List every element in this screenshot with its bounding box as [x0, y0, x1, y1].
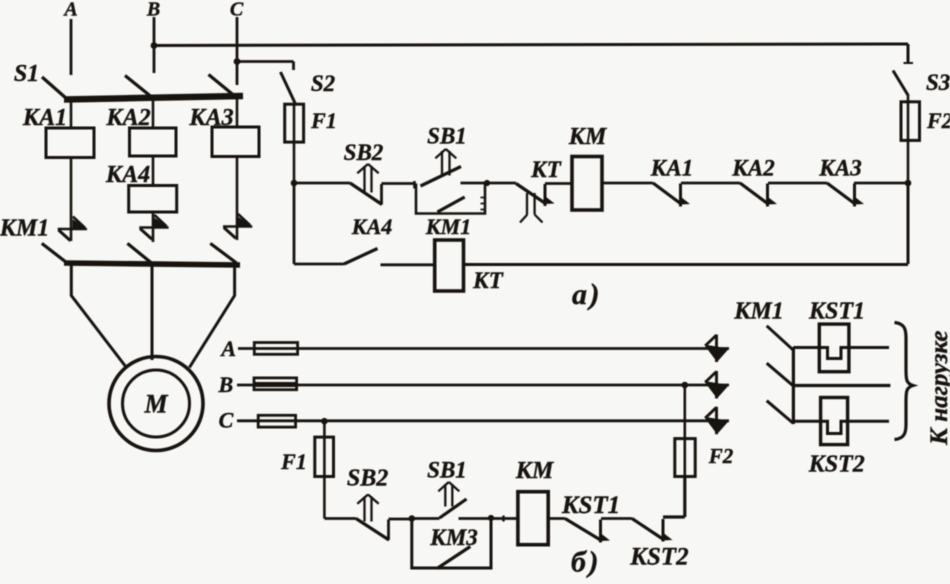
svg-text:б): б): [571, 546, 601, 579]
KM1 holding branch teeth: [481, 198, 486, 210]
pushbutton SB1 actuator: [435, 149, 456, 176]
contact KA2 blade: [740, 183, 777, 207]
svg-text:F1: F1: [310, 108, 337, 133]
pushbutton SB2 right terminal: [380, 184, 383, 205]
junction dot rung b: [409, 515, 416, 522]
wire KM3 holding branch: [412, 519, 491, 569]
junction dot on C: [234, 58, 241, 65]
KM1 linkage bar: [64, 263, 240, 265]
contact KT blade: [516, 184, 546, 204]
KM1 blade B: [127, 243, 151, 263]
svg-text:S1: S1: [14, 61, 39, 87]
svg-text:F2: F2: [926, 108, 950, 133]
junction dot rung b right of branch: [488, 515, 494, 521]
svg-text:КМ1: КМ1: [0, 216, 49, 242]
switch S1 blade C: [209, 75, 237, 98]
switch S2 blade: [281, 72, 296, 103]
wire through fuse F1 circuit b: [323, 421, 326, 518]
wire KST2 to F2: [663, 477, 685, 518]
wire A below KA1: [70, 158, 73, 242]
KM1 blade A: [42, 243, 67, 262]
wire to motor C: [189, 266, 234, 368]
junction dot rung a left: [291, 180, 298, 187]
svg-text:SB1: SB1: [427, 124, 467, 149]
svg-text:КМ3: КМ3: [429, 525, 478, 550]
wire line C circuit b: [237, 419, 729, 422]
contact KM3 blade: [437, 547, 470, 569]
wire load phase C with KST2 heater dip: [793, 421, 889, 433]
switch S1 blade A: [42, 77, 67, 99]
relay coil KT: [435, 240, 464, 291]
contact KST2 blade: [632, 519, 673, 542]
wire KA4 to KT coil: [381, 263, 435, 266]
wire KM1 holding branch: [416, 184, 485, 214]
svg-text:С: С: [219, 408, 234, 433]
wire line A circuit b: [238, 347, 729, 350]
pushbutton SB2 right terminal circuit b: [387, 520, 390, 541]
pushbutton SB1 left terminal: [413, 181, 416, 189]
KM1 load linkage bar: [792, 347, 795, 424]
wire rung b segments: [324, 517, 632, 520]
junction dot line C fuse F1: [321, 418, 328, 425]
line A end arrow: [704, 335, 729, 363]
wire rung a2 left: [294, 263, 344, 266]
fuse F2: [901, 102, 920, 141]
relay coil KA1: [46, 128, 94, 158]
KM coil left terminal tick: [502, 516, 504, 522]
relay coil KA2: [130, 128, 177, 156]
contactor KM1 contact A chevron: [58, 217, 87, 241]
switch S1 blade B: [125, 76, 154, 99]
thermal element KST1 box: [819, 324, 849, 372]
junction dot line B fuse F2: [682, 382, 689, 389]
contact KT delay symbol: [520, 193, 543, 223]
svg-text:В: В: [217, 372, 233, 397]
svg-text:KST2: KST2: [808, 452, 865, 478]
wire junction to SB1 blade: [412, 517, 440, 520]
contact KM1 holding blade: [437, 197, 464, 212]
svg-text:F2: F2: [708, 444, 734, 468]
switch S1 linkage bar: [64, 96, 243, 100]
wire line B circuit b: [237, 384, 729, 387]
pushbutton SB1 blade: [421, 167, 462, 187]
line B end arrow: [704, 371, 729, 399]
curly brace to load: [895, 323, 914, 440]
svg-text:А: А: [219, 336, 236, 361]
switch S3 blade: [893, 71, 909, 97]
junction dot on B: [151, 42, 158, 49]
wire load phase B: [793, 384, 890, 387]
KM1 load blade B: [767, 363, 794, 386]
contact KT right terminal: [544, 184, 547, 206]
motor M outer circle: [109, 357, 203, 451]
pushbutton SB2 actuator circuit b: [357, 495, 378, 522]
svg-text:SB2: SB2: [347, 466, 388, 492]
svg-text:KST2: KST2: [629, 544, 688, 571]
contactor coil KM circuit b: [518, 492, 548, 545]
svg-text:КА4: КА4: [351, 214, 393, 239]
svg-text:КА2: КА2: [731, 156, 774, 181]
contact KT arrow: [546, 197, 555, 205]
wire B below KA4: [152, 212, 155, 242]
motor M inner circle: [123, 370, 190, 437]
wire through fuse F2: [907, 96, 910, 183]
wire load phase A with KST1 heater dip: [793, 348, 889, 359]
contact KA1 blade: [653, 183, 690, 207]
svg-text:КМ: КМ: [568, 124, 608, 150]
right drop terminal tick: [904, 62, 914, 64]
svg-text:КТ: КТ: [530, 157, 562, 182]
thermal element KST2 box: [821, 398, 848, 445]
svg-text:КТ: КТ: [472, 268, 504, 293]
junction dot rung a right: [905, 180, 912, 187]
svg-text:SB2: SB2: [344, 140, 384, 165]
wire C branch bus: [237, 62, 294, 71]
contactor KM1 contact B chevron: [139, 215, 168, 239]
KM1 load blade A: [767, 326, 794, 350]
fuse line C: [258, 415, 295, 427]
svg-text:KST1: KST1: [561, 492, 620, 519]
contact KA3 blade: [827, 183, 864, 207]
relay coil KA4: [129, 186, 177, 213]
svg-text:S2: S2: [311, 71, 335, 96]
line C end arrow: [704, 407, 729, 435]
svg-text:КМ1: КМ1: [733, 299, 784, 325]
wire right drop from top bus: [907, 44, 910, 63]
wire through fuse F1: [293, 103, 296, 183]
relay coil KA3: [212, 127, 259, 157]
fuse line A: [254, 343, 297, 355]
wire to motor B: [151, 266, 154, 361]
svg-text:а): а): [572, 278, 602, 311]
pushbutton SB2 blade: [350, 183, 382, 205]
svg-text:К нагрузке: К нагрузке: [926, 330, 950, 446]
contactor coil KM: [572, 157, 602, 211]
pushbutton SB1 actuator circuit b: [438, 482, 459, 507]
KM1 blade C: [210, 243, 236, 263]
fuse line B: [254, 378, 297, 390]
wire phase C drop: [236, 17, 239, 85]
wire B below KA2: [152, 156, 155, 186]
wire phase B drop: [153, 17, 156, 73]
wire right vertical rung a: [907, 183, 910, 264]
svg-text:KST1: KST1: [808, 299, 865, 325]
wire to motor A: [71, 266, 126, 368]
junction dot after SB1: [484, 180, 490, 186]
pushbutton SB2 actuator: [357, 164, 378, 193]
pushbutton SB1 blade circuit b: [440, 499, 467, 518]
svg-text:КМ: КМ: [515, 458, 555, 484]
svg-text:F1: F1: [280, 449, 307, 474]
KM1 load blade C: [767, 401, 794, 424]
svg-text:S3: S3: [926, 70, 950, 95]
pushbutton SB2 blade circuit b: [356, 519, 389, 541]
svg-text:КА3: КА3: [818, 156, 861, 181]
svg-text:КМ1: КМ1: [425, 214, 471, 239]
fuse F2 circuit b: [675, 439, 695, 477]
wire rung a segments: [294, 182, 908, 185]
contactor KM1 contact C chevron: [223, 214, 252, 238]
fuse F1: [285, 104, 304, 142]
svg-text:М: М: [143, 390, 168, 419]
wire rung a2 right: [464, 263, 909, 266]
svg-text:А: А: [62, 0, 77, 21]
wire KA coil drops: [71, 99, 237, 128]
svg-text:SB1: SB1: [427, 458, 467, 483]
wire top bus: [154, 44, 908, 46]
wire C below KA3: [236, 157, 239, 241]
svg-text:КА1: КА1: [650, 156, 693, 181]
contact KA4 blade: [344, 249, 378, 265]
contact KST1 blade: [565, 519, 610, 543]
fuse F1 circuit b: [315, 437, 334, 476]
wire through fuse F2 circuit b: [683, 385, 686, 477]
wire rung a2 left vertical: [293, 183, 296, 264]
wire phase A drop: [70, 19, 73, 75]
